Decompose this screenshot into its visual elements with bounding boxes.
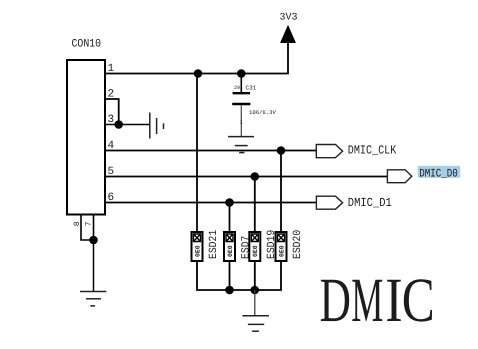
wire ESD7 top	[229, 203, 231, 233]
ESD diode ESD19	[249, 232, 260, 261]
svg-text:C31: C31	[246, 85, 257, 92]
ground (under ESD bus)	[242, 316, 269, 332]
pin 7 number (rotated)	[85, 221, 94, 226]
pin 2 number	[108, 89, 115, 101]
capacitor C31 pin 2 mark	[234, 85, 240, 91]
svg-text:I: I	[385, 265, 402, 335]
ESD20 reference label (rotated)	[292, 230, 304, 259]
svg-text:DMIC_D0: DMIC_D0	[419, 168, 458, 181]
svg-text:ESD21: ESD21	[208, 229, 220, 259]
ESD diode ESD21	[192, 232, 203, 261]
wire pin3 to ground	[105, 124, 150, 126]
net label DMIC_D0	[419, 168, 458, 181]
power symbol 3V3 triangle	[281, 26, 295, 43]
svg-text:M: M	[351, 265, 383, 335]
wire pin2	[105, 99, 119, 125]
wire pin6 net DMIC_D1	[105, 202, 316, 204]
junction bus/ESD19	[251, 286, 260, 295]
ESD19 reference label (rotated)	[266, 230, 278, 259]
title DMIC	[320, 265, 435, 335]
junction pin1/ESD21	[194, 69, 203, 78]
wire pin4 net DMIC_CLK	[105, 150, 316, 152]
wire ESD19 top	[254, 177, 256, 233]
junction pin5/ESD19	[251, 172, 260, 181]
wire ESD21 top (from pin1 net)	[196, 74, 198, 233]
wire pin5 net DMIC_D0	[105, 176, 387, 178]
pin 1 number	[108, 63, 115, 75]
ground at pin3 (rotated right)	[150, 113, 164, 139]
net label DMIC_D0 selection highlight	[418, 166, 460, 178]
pin 6 number	[108, 192, 115, 204]
svg-text:D: D	[320, 265, 351, 335]
wire ground bus under ESD diodes	[197, 261, 281, 290]
svg-text:3V3: 3V3	[280, 13, 298, 24]
ground (bottom left)	[80, 292, 106, 306]
net label 3V3	[280, 13, 298, 24]
capacitor C31 pin 1 mark	[240, 120, 243, 126]
svg-text:1: 1	[240, 120, 243, 126]
ESD diode ESD7	[224, 232, 235, 261]
svg-text:0E0: 0E0	[227, 245, 234, 257]
pin 8 number (rotated)	[73, 221, 82, 226]
junction pin4/ESD20	[277, 146, 286, 155]
svg-text:0E0: 0E0	[194, 245, 201, 257]
svg-text:106/6.3V: 106/6.3V	[249, 109, 276, 116]
wire bus to ground	[254, 290, 256, 315]
svg-text:ESD20: ESD20	[292, 230, 304, 259]
port flag DMIC_CLK	[316, 145, 342, 158]
port flag DMIC_D1	[316, 196, 342, 209]
pin 5 number	[108, 166, 115, 178]
wire pins7/8 to ground	[93, 240, 95, 291]
junction pin1/C31	[237, 69, 246, 78]
svg-text:8: 8	[73, 221, 82, 226]
ESD7 reference label (rotated)	[241, 236, 253, 259]
wire pin1 net to 3V3	[105, 43, 288, 74]
svg-text:CON10: CON10	[72, 39, 102, 51]
connector pins 7/8 stubs	[81, 215, 94, 241]
capacitor C31	[232, 74, 250, 137]
junction pin2/pin3	[114, 120, 123, 129]
net label DMIC_CLK	[348, 144, 397, 158]
ESD21 reference label (rotated)	[208, 229, 220, 259]
pin 3 number	[108, 114, 115, 126]
port flag DMIC_D0	[387, 170, 411, 183]
svg-text:0E0: 0E0	[252, 245, 259, 257]
pin 4 number	[108, 140, 115, 152]
svg-text:29: 29	[234, 85, 240, 91]
capacitor C31 value 106/6.3V	[249, 109, 276, 116]
capacitor C31 reference label	[246, 85, 257, 92]
junction pins 7/8	[89, 236, 98, 245]
svg-text:0E0: 0E0	[278, 245, 285, 257]
connector CON10 reference label	[72, 39, 102, 51]
connector CON10 body	[67, 60, 105, 215]
net label DMIC_D1	[348, 196, 392, 210]
wire ESD20 top	[280, 151, 282, 233]
svg-text:C: C	[402, 265, 435, 335]
svg-text:DMIC_CLK: DMIC_CLK	[348, 144, 397, 158]
svg-text:7: 7	[85, 221, 94, 226]
ESD diode ESD20	[276, 232, 287, 261]
ground under C31	[228, 137, 254, 153]
junction bus/ESD7	[225, 286, 234, 295]
svg-text:DMIC_D1: DMIC_D1	[348, 196, 392, 210]
junction pin6/ESD7	[225, 198, 234, 207]
